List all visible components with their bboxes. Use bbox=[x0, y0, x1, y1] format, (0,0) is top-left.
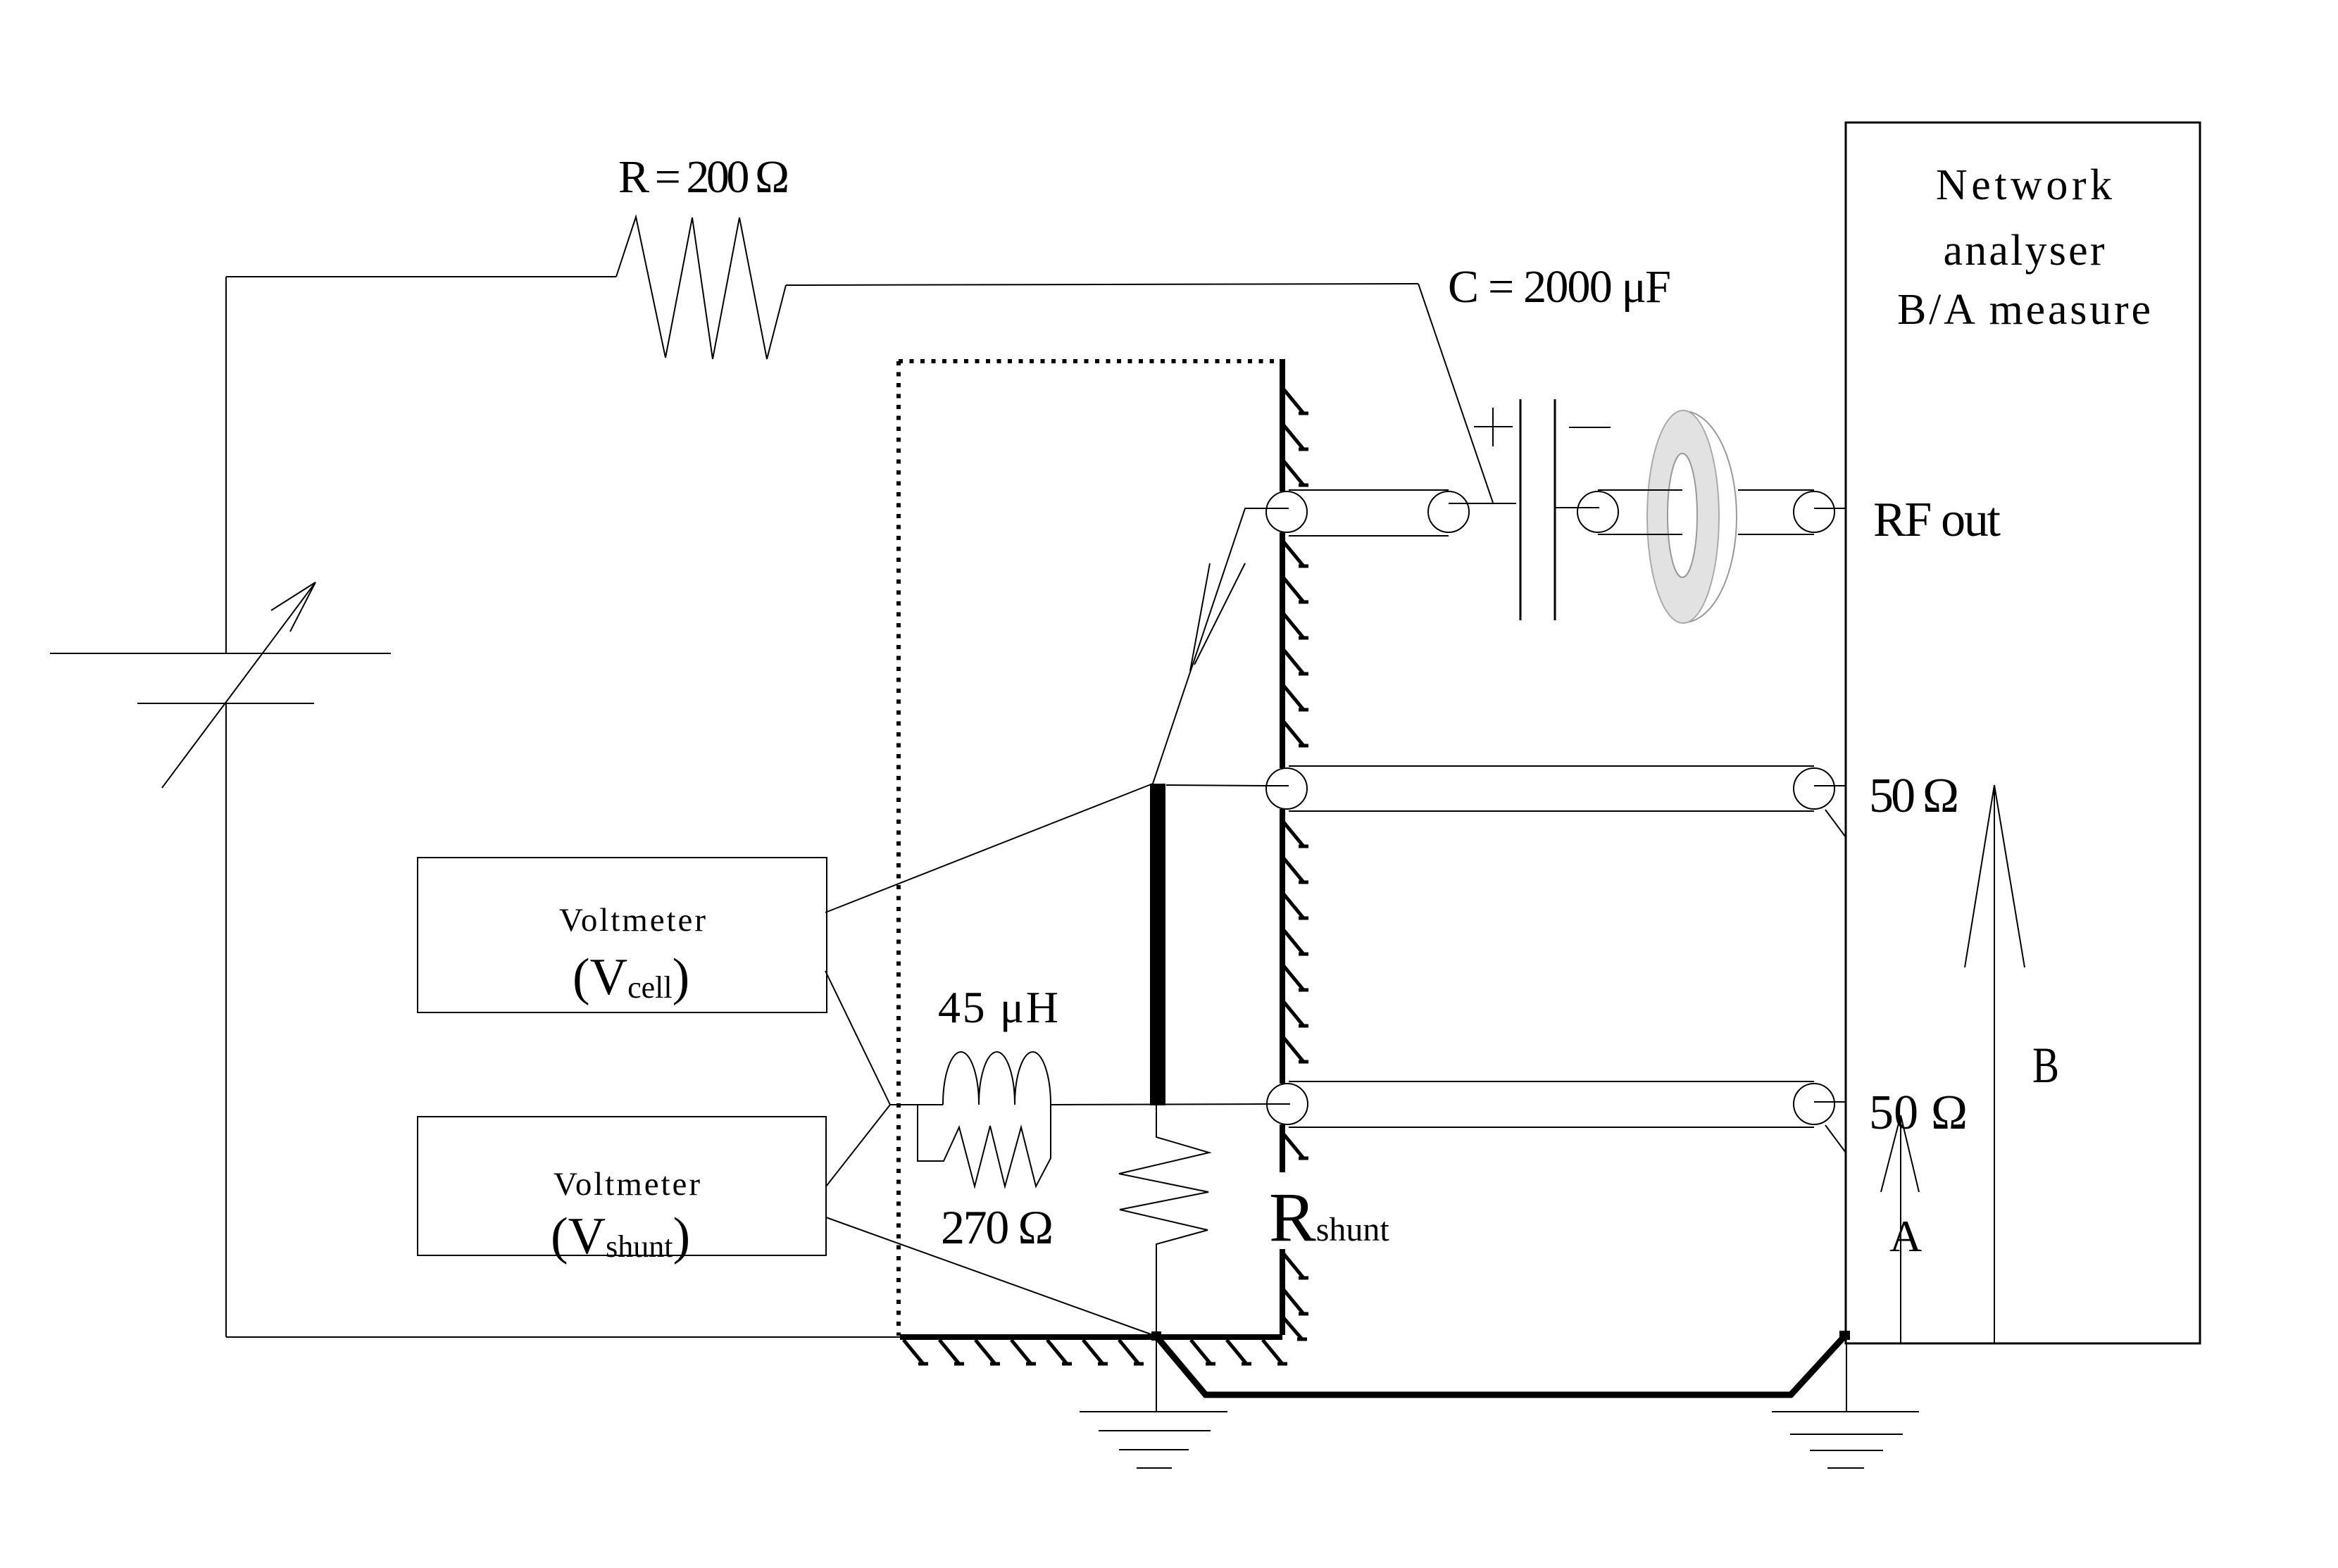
cell wall segment 2 bbox=[1280, 532, 1285, 768]
cell wall segment 1 bbox=[1280, 359, 1285, 491]
svg-text:R = 200 Ω: R = 200 Ω bbox=[618, 151, 789, 203]
arrow B barbs bbox=[1965, 785, 1994, 967]
RF coax centerline into circle 3 bbox=[1555, 507, 1599, 508]
50 ohm coax bottom circle left bbox=[1267, 1084, 1308, 1124]
svg-text:RF out: RF out bbox=[1873, 493, 2001, 547]
wire top horizontal left of R bbox=[226, 276, 616, 277]
resistor 270 ohm (parallel) bbox=[918, 1105, 1051, 1186]
RF coax tube left bbox=[1289, 489, 1449, 491]
svg-text:270 Ω: 270 Ω bbox=[941, 1200, 1054, 1254]
battery V1 bottom plate (short) bbox=[137, 703, 314, 704]
svg-text:B: B bbox=[2032, 1037, 2059, 1093]
dashed cell boundary top bbox=[899, 359, 1280, 363]
capacitor C right plate bbox=[1554, 399, 1556, 620]
svg-text:A: A bbox=[1889, 1211, 1922, 1261]
svg-text:50 Ω: 50 Ω bbox=[1869, 1086, 1968, 1140]
RF coax circle 4 at analyser bbox=[1794, 491, 1834, 532]
voltmeter Vshunt box bbox=[418, 1117, 826, 1255]
earth ground left stem bbox=[1156, 1341, 1157, 1411]
wire Vshunt to ground node bbox=[826, 1217, 1153, 1335]
network analyser box bbox=[1846, 123, 2200, 1343]
50 ohm coax bottom circle right bbox=[1794, 1084, 1834, 1124]
battery V1 top plate (long) bbox=[50, 653, 391, 654]
50 ohm bottom centerline through left circle bbox=[1267, 1103, 1290, 1105]
arrow A line bbox=[1900, 1115, 1901, 1343]
capacitor minus sign bbox=[1569, 427, 1611, 428]
toroid hole bbox=[1668, 453, 1697, 577]
cell wall segment 5 bbox=[1280, 1249, 1285, 1335]
RF coax centerline to analyser bbox=[1814, 508, 1846, 509]
battery arrow barb 1 bbox=[271, 582, 315, 610]
battery arrow barb 2 bbox=[290, 582, 315, 632]
RF coax circle 3 bbox=[1577, 491, 1618, 532]
wire node to coax lower bbox=[1051, 1104, 1268, 1105]
toroid ferrite bead body bbox=[1647, 410, 1719, 623]
working electrode bar bbox=[1150, 784, 1165, 1105]
node J wire to inductor bbox=[890, 1104, 943, 1105]
resistor Rshunt bbox=[1119, 1105, 1209, 1411]
cell wall segment 4 bbox=[1280, 1124, 1285, 1172]
resistor R zigzag bbox=[616, 217, 786, 359]
ground junction blob right bbox=[1839, 1331, 1850, 1340]
50 ohm coax top circle right bbox=[1794, 768, 1834, 809]
RF coax circle 2 bbox=[1428, 491, 1469, 532]
thick ground return diagonal left bbox=[1157, 1336, 1845, 1395]
earth ground right bars bbox=[1772, 1411, 1919, 1412]
inductor 45uH bbox=[943, 1052, 1051, 1105]
wire top-left vertical bbox=[225, 277, 227, 653]
50 ohm bottom diagonal tail bbox=[1825, 1125, 1846, 1153]
RF coax centerline through wall circle bbox=[1245, 508, 1289, 509]
wire Vcell to working electrode bbox=[825, 784, 1153, 912]
50 ohm coax top circle left bbox=[1266, 768, 1307, 809]
RF coax connector circle at wall bbox=[1266, 491, 1307, 532]
50 ohm top centerline through left circle bbox=[1267, 785, 1289, 786]
battery variable arrow bbox=[162, 582, 315, 788]
50 ohm top diagonal tail bbox=[1825, 810, 1846, 837]
arrow A barbs bbox=[1881, 1115, 1901, 1192]
arrowhead on RF diagonal barb 1 bbox=[1190, 563, 1210, 671]
wire electrode top to RF coax diagonal bbox=[1153, 508, 1287, 784]
cell bottom wall bbox=[900, 1334, 1282, 1340]
wire cap right plate to circle 3 bbox=[1555, 507, 1598, 508]
50 ohm coax top tube bbox=[1289, 765, 1814, 767]
toroid ferrite bead 3d edge bbox=[1680, 411, 1737, 623]
wire electrode to upper coax bbox=[1166, 785, 1268, 786]
svg-text:Voltmeter: Voltmeter bbox=[554, 1166, 700, 1203]
cell bottom wall hatches bbox=[904, 1340, 1287, 1364]
wire bottom horizontal bbox=[226, 1336, 900, 1338]
arrowhead on RF diagonal barb 2 bbox=[1194, 563, 1245, 665]
earth ground right stem bbox=[1846, 1343, 1847, 1412]
svg-text:C = 2000 μF: C = 2000 μF bbox=[1448, 261, 1671, 313]
arrow B line bbox=[1994, 785, 1995, 1343]
RF coax centerline into circle 2 bbox=[1449, 503, 1516, 504]
wire Vcell to node J bbox=[825, 971, 890, 1105]
svg-text:50 Ω: 50 Ω bbox=[1869, 769, 1959, 823]
RF coax tube right (through toroid) bbox=[1598, 489, 1682, 491]
svg-text:Network: Network bbox=[1936, 161, 2112, 209]
capacitor plus sign bbox=[1474, 426, 1513, 427]
earth ground left bars bbox=[1080, 1411, 1227, 1412]
50 ohm bottom centerline to analyser bbox=[1814, 1101, 1846, 1103]
ground junction blob left bbox=[1151, 1331, 1161, 1341]
dashed cell boundary left bbox=[896, 361, 901, 1336]
cell wall segment 3 bbox=[1280, 809, 1285, 1084]
50 ohm top centerline to analyser bbox=[1814, 785, 1846, 786]
cell wall hatches bbox=[1284, 389, 1308, 1339]
50 ohm coax bottom tube bbox=[1289, 1081, 1814, 1082]
capacitor C left plate bbox=[1520, 399, 1522, 620]
wire top horizontal right of R bbox=[786, 284, 1418, 285]
wire diagonal down to capacitor bbox=[1418, 284, 1493, 503]
voltmeter Vcell box bbox=[418, 858, 827, 1012]
wire Vshunt to node J bbox=[826, 1105, 890, 1186]
wire left vertical below battery bbox=[225, 703, 227, 1337]
svg-text:Voltmeter: Voltmeter bbox=[559, 902, 706, 939]
